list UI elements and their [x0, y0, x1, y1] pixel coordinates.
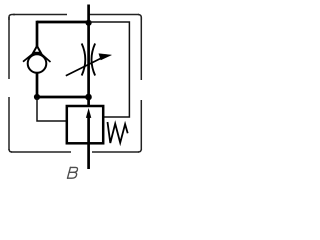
node junction dot left [34, 94, 40, 100]
wire: check valve upper lead [36, 21, 39, 48]
check valve C1 seat triangle [33, 46, 41, 53]
variable restrictor adjustment arrow shaft [66, 58, 102, 76]
wire: check valve lower lead [36, 73, 39, 97]
enclosure frame bottom-right corner [138, 149, 141, 152]
enclosure frame right edge dash 2 [140, 100, 142, 150]
variable restrictor left arc [82, 44, 86, 76]
check valve C1 ball circle [28, 54, 47, 73]
variable restrictor adjustment arrow head [99, 54, 112, 60]
enclosure frame right edge dash 1 [140, 17, 142, 80]
relief valve V1 spring [108, 122, 128, 143]
enclosure frame bottom edge dash 2 [92, 151, 139, 153]
wire: main vertical line lower segment through valve V1 to port B [87, 117, 90, 169]
enclosure frame top-right corner [138, 15, 141, 21]
check valve C1 seat left diagonal [23, 52, 35, 61]
relief valve V1 internal flow arrow head [86, 108, 91, 118]
node junction dot top [86, 20, 92, 26]
wire: middle horizontal branch from check valve to main line [37, 96, 89, 99]
variable restrictor right arc [92, 44, 96, 76]
pilot line: from top junction to spring chamber of V1 [90, 22, 129, 117]
enclosure frame top edge dash 2 [89, 14, 140, 16]
enclosure frame top edge dash 1 [13, 14, 67, 16]
relief valve V1 body box [67, 106, 103, 143]
enclosure frame bottom-left corner [9, 149, 12, 152]
pilot line: from left junction to left side of V1 [37, 98, 67, 121]
enclosure frame left edge dash 1 [8, 17, 10, 79]
enclosure frame bottom edge dash 1 [11, 151, 71, 153]
wire: top horizontal branch to check valve [37, 21, 89, 24]
check valve C1 seat right diagonal [39, 52, 50, 62]
node junction dot middle [85, 94, 92, 101]
port label B [68, 167, 78, 178]
enclosure frame left edge dash 2 [8, 97, 10, 150]
enclosure frame top-left corner [9, 15, 15, 21]
wire: main vertical line top segment (port to valve V1 box top) [87, 5, 90, 107]
